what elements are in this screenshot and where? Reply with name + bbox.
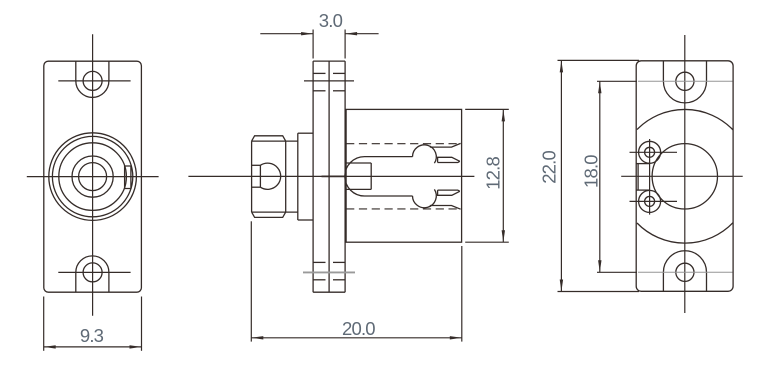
svg-text:9.3: 9.3	[80, 325, 104, 346]
svg-text:18.0: 18.0	[581, 155, 602, 188]
svg-text:22.0: 22.0	[538, 150, 559, 183]
svg-text:20.0: 20.0	[342, 318, 375, 339]
svg-text:3.0: 3.0	[319, 10, 343, 31]
svg-text:12.8: 12.8	[483, 156, 504, 189]
